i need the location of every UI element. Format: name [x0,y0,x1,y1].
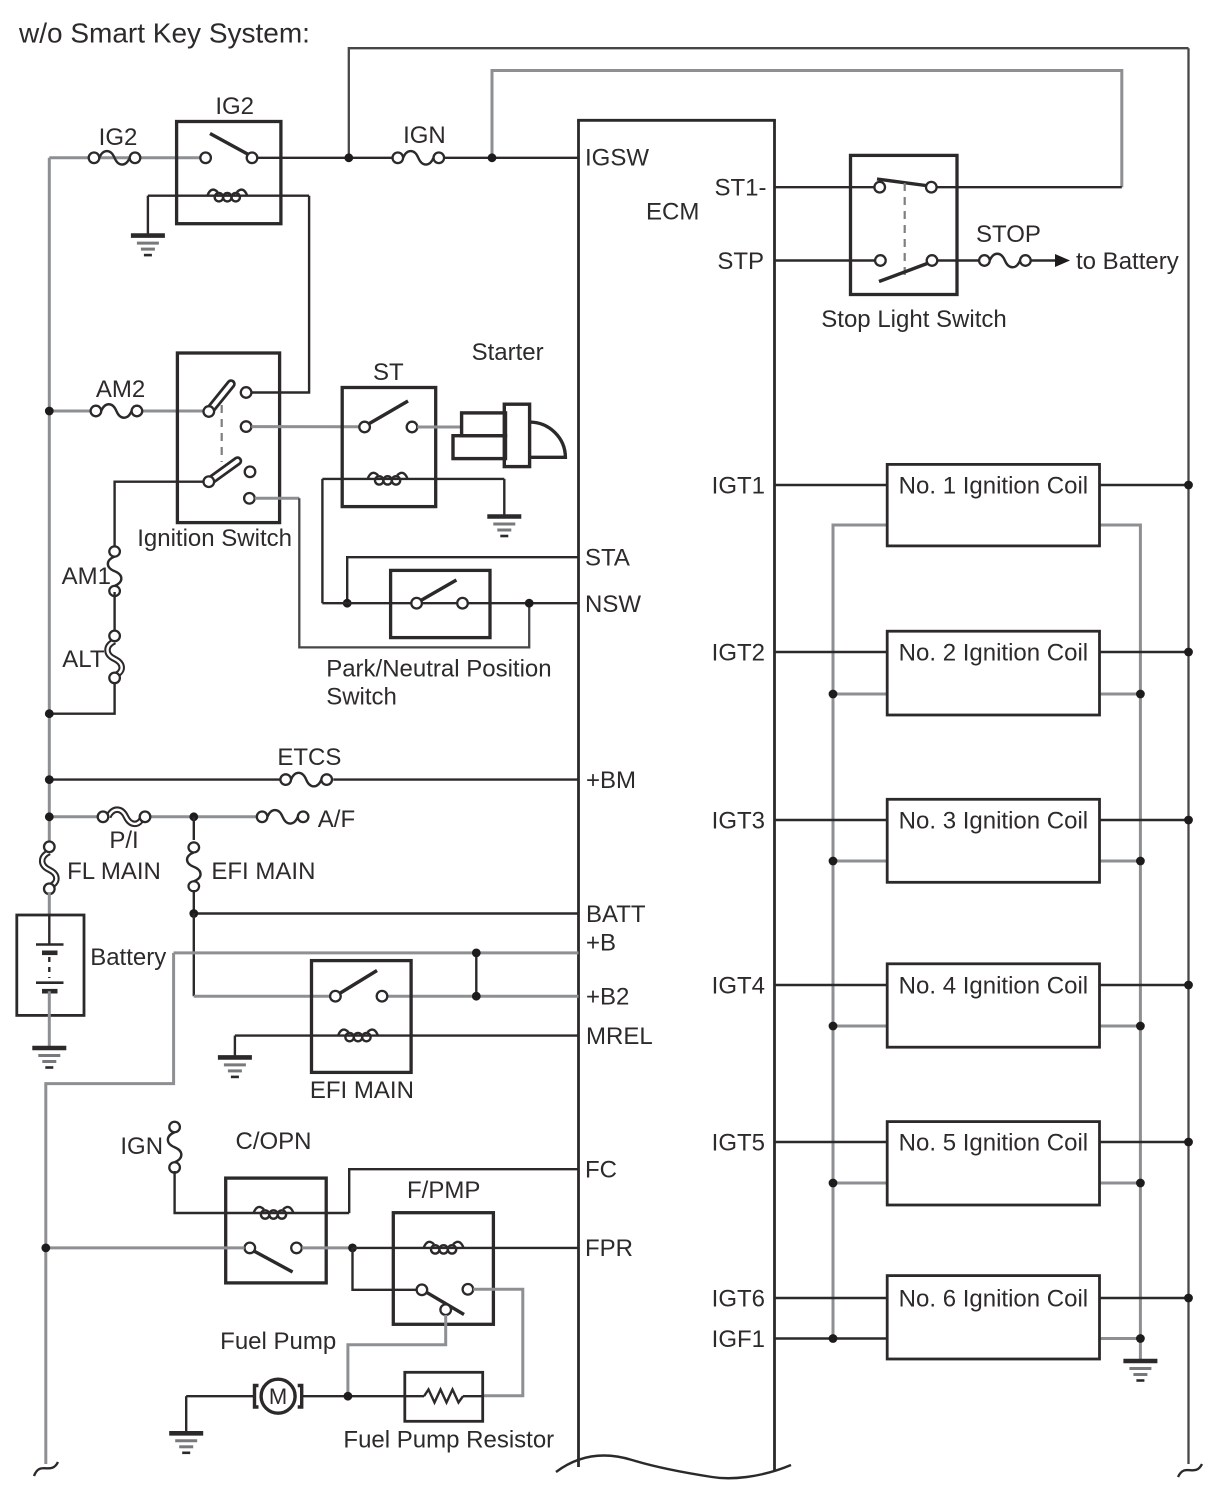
fusible link ALT [107,631,121,684]
svg-text:IGT2: IGT2 [712,640,765,667]
wire IGT6 [775,1297,888,1299]
svg-text:No. 1 Ignition Coil: No. 1 Ignition Coil [899,473,1088,500]
wire P/I line [49,815,97,818]
fuse AM1 [108,546,122,596]
wire ignition switch ST contact to ST relay [251,425,359,428]
ground ignition coils [1123,1361,1157,1381]
wire EFI MAIN coil to ground [234,1036,236,1056]
svg-text:IGSW: IGSW [585,145,649,172]
svg-text:AM1: AM1 [62,563,111,590]
switch: ignition switch [137,353,292,552]
svg-text:IG2: IG2 [99,124,138,151]
wire coil5 lower stubs [833,1182,887,1185]
svg-text:IGT4: IGT4 [712,973,765,1000]
relay C/OPN [226,1128,350,1283]
svg-text:+B2: +B2 [586,984,629,1011]
svg-text:+BM: +BM [586,767,636,794]
svg-text:M: M [269,1384,287,1409]
wire battery +B route down-left [46,953,174,1464]
svg-text:STOP: STOP [976,221,1041,248]
node +B2 link [472,992,481,1001]
svg-text:A/F: A/F [318,806,355,833]
wire fuel pump line [186,1395,256,1397]
wire IGF1 line [775,1337,888,1339]
fuse A/F [257,810,309,824]
wire IGN fuse to C/OPN coil [175,1171,253,1213]
svg-text:FL MAIN: FL MAIN [67,858,161,885]
svg-text:Starter: Starter [472,339,544,366]
starter motor [453,339,565,467]
wire ALT to left rail [49,683,114,714]
wire break tilde left rail [34,1462,58,1476]
fuse IG2 [89,151,141,165]
wire coil3 lower stubs [833,860,887,863]
svg-text:Park/Neutral Position: Park/Neutral Position [326,656,551,683]
fuse ETCS [280,773,332,787]
svg-text:FPR: FPR [585,1235,633,1262]
svg-text:to Battery: to Battery [1076,248,1179,275]
relay ST [322,359,504,507]
wire STA line [347,557,578,603]
wire right inner coil rail [1100,525,1141,1359]
node +BM tap [45,775,54,784]
node EFI MAIN tap [189,812,198,821]
wire: IG2 coil to ignition switch IG2 contact [251,196,309,393]
node NSW bypass junction [525,599,534,608]
ignition coil 4 [887,964,1099,1047]
svg-text:No. 2 Ignition Coil: No. 2 Ignition Coil [899,640,1088,667]
wire: IGSW gray segment through IG2 fuse [49,156,200,159]
svg-text:IGT1: IGT1 [712,473,765,500]
battery [17,915,166,1046]
wire: coil supply right rail [1187,48,1189,1464]
wire +B/+B2 link [475,953,477,996]
wire IGT3 [775,819,888,821]
wire ST1- line [775,186,875,188]
svg-text:No. 3 Ignition Coil: No. 3 Ignition Coil [899,808,1088,835]
fuse IGN [393,151,445,165]
node BATT junction [189,909,198,918]
wire jog to F/PMP switch [353,1248,417,1290]
wire BATT down to EFI relay contact [193,914,195,997]
svg-text:IGT5: IGT5 [712,1130,765,1157]
node STA/NSW junction [343,599,352,608]
ignition coil 2 [887,631,1099,715]
svg-text:ST: ST [373,359,404,386]
ignition coil 1 [887,464,1099,546]
svg-text:Fuel Pump Resistor: Fuel Pump Resistor [343,1427,554,1454]
ground EFI MAIN relay [218,1057,252,1077]
node P/I tap [45,812,54,821]
switch: stop light switch [821,155,1006,333]
wire: second top loop (stop light switch to post-fuse IGSW) [492,71,1122,188]
wire IGT1 [775,484,888,486]
ground ST relay [487,517,521,537]
node fuel pump junction [344,1392,353,1401]
svg-text:EFI MAIN: EFI MAIN [211,858,315,885]
ignition coil 6 [887,1276,1099,1359]
wire AM2 line [49,410,90,413]
svg-text:EFI MAIN: EFI MAIN [310,1077,414,1104]
svg-text:w/o Smart Key System:: w/o Smart Key System: [18,18,310,49]
wire IGT5 [775,1141,888,1143]
svg-text:IGT6: IGT6 [712,1286,765,1313]
relay EFI MAIN [235,961,579,1104]
wire NSW bypass loop [299,498,529,647]
svg-text:MREL: MREL [586,1023,653,1050]
svg-text:STP: STP [717,248,764,275]
ground battery [32,1048,66,1068]
ignition coil 3 [887,799,1099,882]
wire BATT line [194,912,579,914]
wire left inner coil rail [833,525,887,1339]
wire +B line [174,951,579,954]
ground IG2 relay [131,236,165,256]
node AM2 tap on left rail [45,407,54,416]
svg-text:ALT: ALT [62,646,105,673]
wire coil4 lower stubs [833,1025,887,1028]
switch: park/neutral position switch [326,570,551,710]
node left rail tap [41,1244,50,1253]
wire F/PMP right contact to resistor [473,1289,523,1396]
resistor fuel pump resistor [343,1372,554,1453]
fuse AM2 [91,404,143,418]
wire +BM line [49,778,280,780]
svg-text:BATT: BATT [586,901,646,928]
node FPR junction [348,1244,357,1253]
fuse STOP [979,254,1031,268]
relay F/PMP [393,1177,493,1324]
wire ST coil right to ground [503,479,505,515]
wire break tilde right rail [1178,1464,1202,1477]
motor fuel pump [220,1328,336,1413]
svg-text:Battery: Battery [90,944,166,971]
wire left rail into battery [48,892,51,916]
svg-text:NSW: NSW [585,591,641,618]
svg-text:P/I: P/I [109,827,138,854]
wire C/OPN switch feed [46,1246,245,1249]
svg-text:+B: +B [586,930,616,957]
svg-text:FC: FC [585,1157,617,1184]
wire FPR line through F/PMP coil [353,1247,579,1249]
wire ST coil left down to NSW [321,479,323,603]
wire ST relay to starter [417,426,462,429]
svg-text:AM2: AM2 [96,376,145,403]
svg-text:Switch: Switch [326,684,397,711]
fusible link FL MAIN [42,842,56,895]
wire NSW line [322,602,578,604]
svg-text:IGN: IGN [403,122,446,149]
svg-text:F/PMP: F/PMP [407,1177,480,1204]
relay IG2 [148,93,579,224]
ignition coil 5 [887,1122,1099,1205]
wire coil2 lower stubs [833,693,887,696]
svg-text:IGN: IGN [120,1133,163,1160]
svg-text:No. 6 Ignition Coil: No. 6 Ignition Coil [899,1286,1088,1313]
svg-text:IG2: IG2 [215,93,254,120]
wire FC line [349,1169,578,1213]
svg-text:ECM: ECM [646,199,699,226]
wire to battery + arrow [1031,248,1179,275]
wire AM1-ALT connector [113,592,115,631]
wire IGT2 [775,651,888,653]
wire: top feed from IGSW line to coil supply rail [349,48,1189,158]
svg-text:Stop Light Switch: Stop Light Switch [821,306,1006,333]
node +B link [472,949,481,958]
svg-text:ETCS: ETCS [277,744,341,771]
svg-text:Fuel Pump: Fuel Pump [220,1328,336,1355]
fusible link P/I [98,810,151,824]
svg-text:IGT3: IGT3 [712,808,765,835]
svg-text:C/OPN: C/OPN [235,1128,311,1155]
wire: IG2 coil to ground [147,196,149,234]
svg-text:No. 5 Ignition Coil: No. 5 Ignition Coil [899,1130,1088,1157]
wire STP line [775,259,876,261]
wire coil6 right stub to ground rail [1100,1337,1141,1340]
svg-text:ST1-: ST1- [714,175,766,202]
wire: left main rail from IG2 fuse down to FL MAIN [48,158,51,842]
node junction IGSW pre-fuse [344,153,353,162]
fuse EFI MAIN [187,842,201,891]
wire ignition switch ST2 contact down [255,497,300,500]
svg-text:Ignition Switch: Ignition Switch [137,525,292,552]
node junction IGSW post-fuse [488,153,497,162]
wire +B2 line [387,995,578,998]
ground fuel pump [185,1396,187,1431]
wire EFI MAIN fuse connectors [193,817,195,840]
fuse IGN (lower) [168,1122,182,1173]
ECM box [556,120,791,1478]
wire F/PMP middle contact to fuel pump [348,1315,446,1396]
wire C/OPN to F/PMP [302,1246,353,1249]
svg-text:IGF1: IGF1 [712,1326,765,1353]
svg-text:STA: STA [585,545,630,572]
wire IGT4 [775,984,888,986]
wire ignition switch AM pivot2 feed [115,482,204,547]
node ALT join [45,709,54,718]
svg-text:No. 4 Ignition Coil: No. 4 Ignition Coil [899,973,1088,1000]
